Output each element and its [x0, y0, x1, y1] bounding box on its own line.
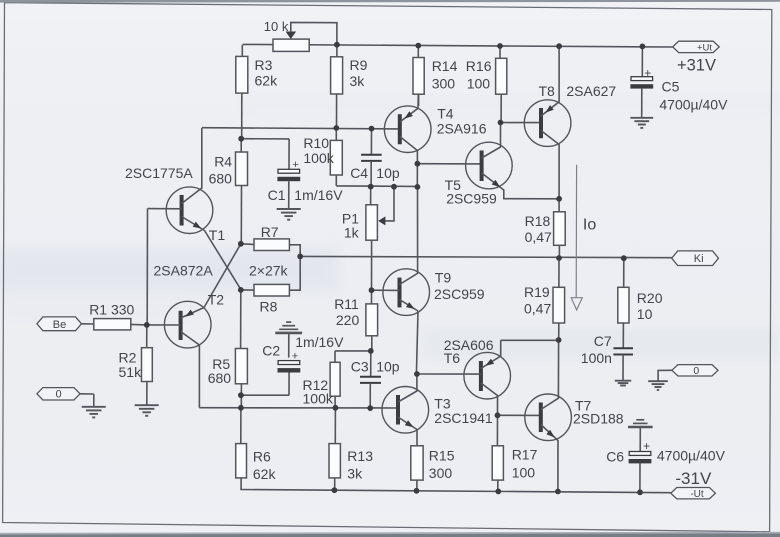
svg-text:T8: T8: [539, 83, 556, 99]
svg-text:T9: T9: [435, 270, 452, 286]
svg-text:2×27k: 2×27k: [249, 262, 289, 278]
svg-text:R16: R16: [466, 58, 492, 74]
svg-text:2SA872A: 2SA872A: [154, 262, 214, 278]
svg-text:R19: R19: [524, 284, 550, 300]
svg-text:2SC959: 2SC959: [446, 191, 497, 207]
svg-text:4700µ/40V: 4700µ/40V: [657, 447, 726, 463]
svg-text:R8: R8: [260, 299, 278, 315]
svg-text:C5: C5: [662, 78, 680, 94]
svg-text:10: 10: [637, 306, 653, 322]
svg-text:T6: T6: [444, 350, 461, 366]
svg-text:R20: R20: [637, 290, 663, 306]
svg-text:62k: 62k: [253, 466, 277, 482]
svg-text:C3: C3: [351, 358, 369, 374]
svg-text:C7: C7: [594, 333, 612, 349]
svg-text:0,47: 0,47: [525, 229, 552, 245]
svg-text:+31V: +31V: [677, 56, 716, 74]
svg-text:680: 680: [209, 170, 233, 186]
svg-text:C4: C4: [350, 165, 368, 181]
svg-text:100: 100: [467, 75, 491, 91]
svg-text:2SD188: 2SD188: [573, 411, 624, 427]
svg-text:10p: 10p: [376, 165, 400, 181]
svg-text:+Ut: +Ut: [697, 42, 712, 53]
svg-text:680: 680: [208, 370, 232, 386]
svg-text:51k: 51k: [119, 364, 143, 380]
svg-text:3k: 3k: [347, 466, 363, 482]
svg-text:R15: R15: [429, 448, 455, 464]
svg-text:R4: R4: [214, 154, 232, 170]
svg-text:-Ut: -Ut: [690, 489, 704, 500]
svg-text:0: 0: [693, 365, 699, 377]
svg-text:1k: 1k: [344, 225, 360, 241]
svg-text:R17: R17: [512, 447, 538, 463]
svg-text:1m/16V: 1m/16V: [294, 187, 343, 203]
svg-text:100k: 100k: [303, 150, 334, 166]
svg-text:1m/16V: 1m/16V: [295, 334, 344, 350]
svg-text:0,47: 0,47: [524, 301, 551, 317]
svg-text:T4: T4: [437, 105, 454, 121]
svg-text:100n: 100n: [581, 350, 612, 366]
svg-text:2SC1941: 2SC1941: [434, 410, 493, 426]
svg-text:R13: R13: [347, 448, 373, 464]
svg-text:10p: 10p: [376, 358, 400, 374]
svg-text:100: 100: [512, 465, 536, 481]
svg-text:C2: C2: [262, 343, 280, 359]
svg-text:R14: R14: [432, 58, 458, 74]
svg-text:T1: T1: [209, 227, 226, 243]
svg-text:R6: R6: [253, 449, 271, 465]
svg-text:R9: R9: [350, 57, 368, 73]
svg-text:2SA916: 2SA916: [437, 120, 487, 136]
svg-text:-31V: -31V: [675, 469, 712, 488]
svg-text:Io: Io: [583, 216, 596, 233]
svg-text:C1: C1: [268, 187, 286, 203]
svg-text:T2: T2: [208, 292, 225, 308]
svg-text:0: 0: [55, 389, 61, 401]
svg-text:4700µ/40V: 4700µ/40V: [659, 97, 728, 113]
svg-text:Ki: Ki: [694, 253, 704, 265]
svg-text:100k: 100k: [303, 391, 334, 407]
svg-text:2SA627: 2SA627: [566, 83, 616, 99]
svg-text:220: 220: [336, 312, 360, 328]
svg-text:300: 300: [432, 75, 456, 91]
svg-text:R7: R7: [261, 224, 279, 240]
svg-text:R11: R11: [334, 296, 359, 312]
svg-text:62k: 62k: [255, 72, 279, 88]
svg-text:R10: R10: [303, 135, 329, 151]
svg-text:Be: Be: [53, 319, 66, 331]
svg-text:2SC959: 2SC959: [434, 286, 485, 302]
svg-text:3k: 3k: [350, 73, 366, 89]
svg-text:R3: R3: [255, 57, 273, 73]
svg-text:R18: R18: [525, 213, 551, 229]
svg-text:300: 300: [429, 465, 453, 481]
svg-text:R1 330: R1 330: [89, 301, 134, 317]
svg-text:C6: C6: [606, 449, 624, 465]
svg-text:2SC1775A: 2SC1775A: [125, 165, 193, 181]
svg-text:10 k: 10 k: [264, 19, 289, 34]
